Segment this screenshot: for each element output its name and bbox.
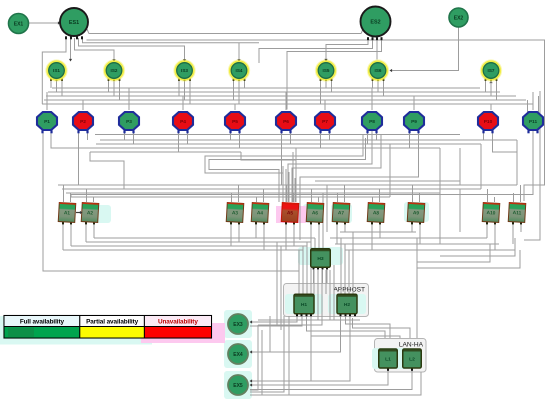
wire bus y96 [46, 95, 516, 97]
pins P1 [41, 130, 52, 133]
node EX3 [228, 314, 248, 334]
wire P6 right drop [290, 131, 292, 144]
svg-text:P8: P8 [369, 119, 375, 125]
node P8 [362, 112, 382, 130]
node A3 [226, 203, 244, 223]
wire H2 to EX4 [250, 316, 341, 352]
wire bus y250 right [345, 249, 515, 251]
wire bundle H2 a [340, 238, 342, 294]
node P11 [523, 112, 543, 130]
wire IS4 pin2 drop [238, 81, 240, 104]
arrowhead into EX4 [250, 350, 253, 353]
wire bus y189 [62, 188, 481, 190]
svg-text:A10: A10 [486, 210, 495, 217]
pins P9 [408, 130, 419, 133]
wire P10 right drop [493, 131, 518, 185]
wire bundle H2 c [348, 250, 350, 294]
wire A9 right pin drop [419, 223, 421, 244]
legend table [4, 316, 212, 339]
wire P8 left drop [367, 131, 369, 144]
wire IS2 pin3 drop [119, 81, 121, 100]
wire A8 right pin drop [379, 223, 381, 238]
wire APPHOST down to EX5 [250, 316, 289, 395]
wire bundle below H3 c [258, 270, 322, 325]
wire H3 pin drop [322, 269, 324, 283]
wire P9 left drop [409, 131, 411, 148]
wire left of APPHOST a [276, 242, 278, 326]
wire right step7 [439, 193, 441, 244]
wire bundle above A5 [291, 175, 293, 202]
svg-text:A9: A9 [413, 210, 420, 216]
wire drop into IS4 [238, 43, 240, 60]
node A2 [81, 203, 99, 223]
glow unavailability pink [141, 323, 225, 343]
node ES2 [361, 7, 391, 37]
wire ES2 to IS6 [376, 39, 378, 60]
wire bus y144 [96, 143, 481, 145]
arrowhead into IS5 [324, 59, 327, 62]
pins A3 [230, 222, 240, 225]
svg-text:P5: P5 [232, 119, 238, 125]
wire P8 mid drop [288, 131, 372, 202]
node P6 [276, 112, 296, 130]
svg-text:A5: A5 [287, 210, 294, 216]
wire IS2 pin2 drop [113, 81, 115, 96]
glow A7 [331, 204, 352, 223]
wire P5 left drop [230, 131, 232, 140]
wire stub P11 right [538, 96, 540, 112]
svg-text:A4: A4 [257, 210, 264, 216]
svg-text:H1: H1 [301, 302, 308, 308]
pins A4 [255, 222, 265, 225]
svg-text:ES2: ES2 [370, 19, 380, 25]
wire P8 far right drop [292, 134, 381, 202]
wire A5 bundle tall a [295, 148, 297, 202]
wire IS2 pin1 drop [108, 81, 110, 92]
node P5 [225, 112, 245, 130]
pin L1 [387, 368, 389, 371]
wire L2 to EX5 [250, 369, 412, 390]
svg-text:EX5: EX5 [233, 383, 243, 389]
wire A1 left pin drop [62, 223, 64, 250]
wire H3 pin drop [326, 269, 328, 283]
pins ES1 [65, 36, 83, 39]
wire P4 left drop [178, 131, 180, 152]
pins P5 [229, 130, 240, 133]
wire A2 right pin drop [93, 223, 95, 238]
wire bundle b4 [310, 238, 312, 294]
node EX4 [228, 344, 248, 364]
arrowhead into EX3 [250, 320, 253, 323]
wire ES1 to IS1 [70, 38, 72, 60]
wire APPHOST down to EX5 b [250, 316, 284, 392]
wire H1 long drop [310, 316, 312, 381]
glow EX4 [224, 340, 252, 368]
wire P7 left drop [320, 131, 322, 148]
wire IS7 pin3 drop [496, 81, 498, 100]
svg-text:P11: P11 [529, 119, 538, 125]
wire ES2 to IS5 [326, 39, 368, 60]
svg-text:A2: A2 [87, 210, 94, 216]
pins P6 [280, 130, 291, 133]
wire A9 left pin drop [411, 223, 413, 232]
wire H1 to EX3 a [250, 316, 297, 322]
node H2 [337, 294, 357, 314]
wire riser A9 right [419, 193, 421, 202]
wire right step5 [459, 148, 461, 185]
wire IS1 pin3 drop [61, 81, 63, 96]
svg-text:IS3: IS3 [181, 68, 188, 73]
wire riser A5 left [286, 185, 288, 202]
wire IS6 pin3 drop [383, 81, 385, 96]
wire riser A4 left [256, 197, 258, 202]
wire ES1 pin1 left drop [42, 38, 66, 104]
wire riser A5 right [293, 193, 295, 202]
svg-text:P4: P4 [180, 119, 186, 125]
wire H3 pin drop [313, 269, 315, 283]
pins P2 [77, 130, 88, 133]
wire bus y185 [58, 184, 517, 186]
wire riser A3 left [231, 193, 233, 202]
svg-text:A6: A6 [312, 210, 319, 216]
wire into H3 top right [314, 238, 316, 249]
wire right step1 [516, 140, 518, 185]
wire IS7 pin2 drop [490, 81, 492, 96]
glow EX3 [224, 310, 252, 338]
svg-text:IS4: IS4 [236, 68, 243, 73]
glow H1 [285, 294, 323, 314]
pins IS5 [320, 79, 333, 81]
pins A2 [85, 222, 95, 225]
svg-text:EX4: EX4 [233, 352, 243, 358]
pins H2 [340, 314, 357, 317]
wire riser to P9 top [413, 96, 415, 110]
glow A9 [404, 202, 429, 222]
wire riser to P8 top [371, 88, 373, 110]
wire riser A8 left [372, 197, 374, 202]
wire bus y92 [48, 91, 500, 93]
wire riser A10 left [487, 189, 489, 202]
wire A7 right pin drop [344, 223, 346, 232]
wire A5 bundle tall b [292, 152, 294, 202]
wire bundle above A5 [294, 178, 296, 202]
wire riser to P11 top [532, 92, 534, 110]
wire IS7 pin1 drop [485, 81, 487, 92]
wire H2 to EX5 a [250, 316, 350, 381]
wire A9 area drop [416, 238, 418, 268]
wire P6 left drop [281, 131, 283, 185]
wire riser to P10 top [490, 104, 492, 110]
wire IS6 pin2 drop [377, 81, 379, 92]
node IS5 [316, 60, 337, 81]
node IS7 [481, 60, 502, 81]
wire center y181 [315, 152, 460, 181]
glow A6 [303, 204, 324, 223]
svg-text:H2: H2 [344, 302, 351, 308]
wire P10 left drop [483, 131, 485, 140]
node P10 [478, 112, 498, 130]
wire H3 right feed [326, 185, 328, 232]
wire IS5 pin3 drop [331, 81, 333, 92]
wire right step2 [480, 144, 482, 189]
wire IS4 pin1 drop [233, 81, 235, 100]
wire ES1 long right edge [87, 40, 545, 201]
glow H2 [328, 294, 366, 314]
wire A4 right pin drop [263, 223, 265, 250]
wire riser A2 left [86, 189, 88, 202]
wire right down to LAN-HA [417, 250, 520, 338]
node L2 [403, 349, 422, 368]
pins IS2 [108, 79, 121, 81]
wire step to A5 [241, 152, 296, 202]
node H3 [311, 249, 331, 268]
svg-text:L1: L1 [385, 357, 391, 363]
glow H3 [298, 247, 343, 265]
node P1 [37, 112, 57, 130]
svg-text:P7: P7 [322, 119, 328, 125]
svg-text:A1: A1 [64, 210, 71, 216]
wire P1 long drop to APPHOST [43, 131, 299, 271]
pins P11 [527, 130, 538, 133]
wire riser to P4 top [182, 96, 184, 110]
node IS3 [174, 60, 195, 81]
wire bundle above A5 [288, 172, 290, 202]
svg-text:IS2: IS2 [111, 68, 118, 73]
wire P7 right drop [329, 131, 331, 140]
wire bus y242 left [86, 241, 311, 243]
glow A2 [95, 205, 111, 223]
arrowhead into A2 [80, 211, 83, 214]
arrowhead into IS4 [237, 59, 240, 62]
arrowhead into IS1 [69, 59, 72, 62]
wire ES1 top bus right [83, 38, 260, 43]
wire P11 long drop [71, 131, 533, 197]
svg-text:P1: P1 [44, 119, 50, 125]
wire bus y104 [42, 103, 533, 105]
wire bus to IS7 [490, 82, 492, 96]
wire IS3 pin2 drop [184, 81, 186, 100]
svg-text:IS5: IS5 [323, 68, 330, 73]
wire bundle below H3 a [313, 270, 315, 294]
arrowhead into IS2 [112, 59, 115, 62]
wire P4 right drop [187, 131, 189, 144]
wire A10 right pin drop [494, 223, 496, 250]
wire bus y88 [52, 87, 480, 89]
arrowhead into EX5 b [250, 383, 253, 386]
wire P3 right drop [133, 131, 135, 144]
pins A11 [512, 222, 522, 225]
pins IS7 [485, 79, 498, 81]
wire P8 right drop [376, 131, 378, 140]
pins A9 [411, 222, 421, 225]
svg-text:A8: A8 [373, 210, 380, 216]
wire IS4 pin3 drop [244, 81, 246, 88]
svg-text:ES1: ES1 [69, 20, 79, 26]
wire right step6 [459, 189, 461, 232]
node IS1 [46, 60, 67, 81]
svg-text:P9: P9 [411, 119, 417, 125]
wire H3 pin drop [317, 269, 319, 283]
svg-text:H3: H3 [317, 256, 324, 262]
wire P5 right drop [239, 131, 241, 148]
node ES1 [60, 8, 88, 36]
pins ES2 [367, 37, 383, 40]
svg-text:Unavailability: Unavailability [158, 319, 198, 326]
node P9 [404, 112, 424, 130]
pins P10 [482, 130, 493, 133]
wire riser A7 left [337, 193, 339, 202]
node A8 [367, 203, 385, 223]
group box APPHOST [284, 284, 369, 317]
wire IS5 pin1 drop [320, 81, 322, 104]
svg-text:L2: L2 [409, 357, 415, 363]
wire P1 right pin [51, 131, 93, 148]
wire riser A11 left [513, 193, 515, 202]
wire A5 left pin drop [285, 223, 287, 250]
wire H1 to LAN-HA [307, 316, 386, 338]
wire P9 right drop [300, 131, 419, 240]
wire riser to P6 top [285, 92, 287, 110]
wire A6 left pin drop [310, 223, 312, 242]
wire bundle below H3 b [318, 270, 360, 320]
wire bundle above A5 [285, 169, 287, 202]
pins P8 [366, 130, 377, 133]
wire riser A7 right [344, 185, 346, 202]
wire bundle mid2 [258, 265, 334, 320]
wire right step4 [389, 144, 391, 197]
wire riser A2 right [93, 197, 95, 202]
wire bundle H2 b [344, 244, 346, 294]
pins A5 [285, 222, 295, 225]
wire riser A3 right [238, 185, 240, 202]
pins IS4 [233, 79, 246, 81]
node P4 [173, 112, 193, 130]
wire EX1 to ES1 [29, 22, 59, 24]
wire H2 to LAN-HA b [353, 318, 411, 338]
wire H3 feed from bus [322, 193, 324, 249]
wire into H3 top [310, 242, 312, 249]
wire P3 left drop [124, 131, 126, 140]
svg-text:P3: P3 [126, 119, 132, 125]
wire EX2 to IS6 [391, 28, 459, 71]
wire bus y250 left [63, 249, 303, 251]
wire bundle H2 d [352, 232, 354, 294]
pins A8 [371, 222, 381, 225]
node IS6 [368, 60, 389, 81]
wire ES2 to P6 [287, 39, 382, 110]
wire IS5 pin2 drop [325, 81, 327, 88]
wire right step3 [439, 148, 441, 193]
svg-text:A11: A11 [513, 210, 522, 216]
wire bus y100 [44, 99, 526, 101]
wire IS1 pin2 drop [56, 81, 58, 92]
node A4 [251, 203, 269, 223]
pins IS6 [372, 79, 385, 81]
group box LAN-HA [375, 339, 427, 373]
wire riser A1 left [63, 185, 65, 202]
node A10 [482, 203, 500, 223]
wire A8 left pin drop [371, 223, 373, 250]
wire right step corner a [440, 238, 515, 256]
wire ES2 left branch [259, 39, 373, 63]
wire riser A11 right [520, 185, 522, 202]
wire H2 to LAN-HA [346, 316, 391, 338]
pins IS3 [178, 79, 191, 81]
wire riser A4 right [263, 189, 265, 202]
pins H1 [296, 314, 312, 317]
wire bus y148 [93, 147, 440, 149]
pins A6 [310, 222, 320, 225]
wire P2 left drop [78, 131, 80, 185]
wire A2 left pin drop [85, 223, 87, 242]
glow LAN-HA nodes [372, 348, 416, 369]
wire bus y134 under P row [95, 134, 460, 136]
wire A1 to A2 [76, 212, 81, 214]
wire A4 left pin drop [255, 223, 257, 238]
wire riser to P7 top [324, 100, 326, 110]
node A5 [281, 203, 299, 223]
wire A6 right pin drop [318, 223, 320, 238]
wire riser to P3 top [128, 88, 130, 110]
node EX1 [9, 14, 29, 34]
wire ES1 to IS3 [79, 38, 185, 60]
svg-text:EX1: EX1 [14, 21, 24, 27]
svg-text:P2: P2 [80, 119, 86, 125]
glow EX5 [224, 371, 252, 399]
node EX2 [449, 8, 468, 27]
wire H1 to EX3 b [250, 316, 302, 326]
node L1 [379, 349, 398, 368]
wire A5 right pin drop [293, 223, 295, 246]
wire bus y246 left [71, 245, 307, 247]
node H1 [294, 294, 314, 314]
wire left drop to EX5 [250, 325, 258, 390]
pin L2 [411, 368, 413, 371]
wire bus y238 left [94, 237, 315, 239]
arrowhead into IS7 [489, 81, 492, 84]
node A7 [332, 203, 350, 223]
svg-text:EX2: EX2 [454, 15, 464, 21]
svg-text:P10: P10 [484, 119, 493, 125]
pins H3 [313, 267, 329, 270]
wire IS6 pin1 drop [372, 81, 374, 88]
svg-text:IS6: IS6 [375, 68, 382, 73]
svg-text:IS7: IS7 [488, 68, 495, 73]
wire bus y232 right [340, 231, 416, 233]
wire A11 right pin drop [520, 223, 522, 232]
node P7 [315, 112, 335, 130]
wire step left [90, 152, 124, 189]
wire riser A10 right [494, 197, 496, 202]
pins IS1 [50, 79, 63, 81]
svg-text:EX3: EX3 [233, 322, 243, 328]
wire riser to P1 top [46, 92, 48, 110]
node P2 [73, 112, 93, 130]
svg-text:IS1: IS1 [53, 68, 60, 73]
wire stub P11 left [527, 100, 529, 112]
glow A5 pink [276, 206, 306, 223]
wire bundle below H3 d [325, 270, 327, 294]
wire A3 left pin drop [230, 223, 232, 246]
wire riser to P5 top [234, 104, 236, 110]
wire into H3 top2 [318, 232, 320, 249]
node IS2 [104, 60, 125, 81]
node IS4 [229, 60, 250, 81]
svg-text:Full availability: Full availability [20, 319, 65, 326]
wire IS1 pin1 drop [50, 81, 52, 88]
wire bus y238 right [330, 237, 487, 239]
wire riser A8 right [379, 189, 381, 202]
